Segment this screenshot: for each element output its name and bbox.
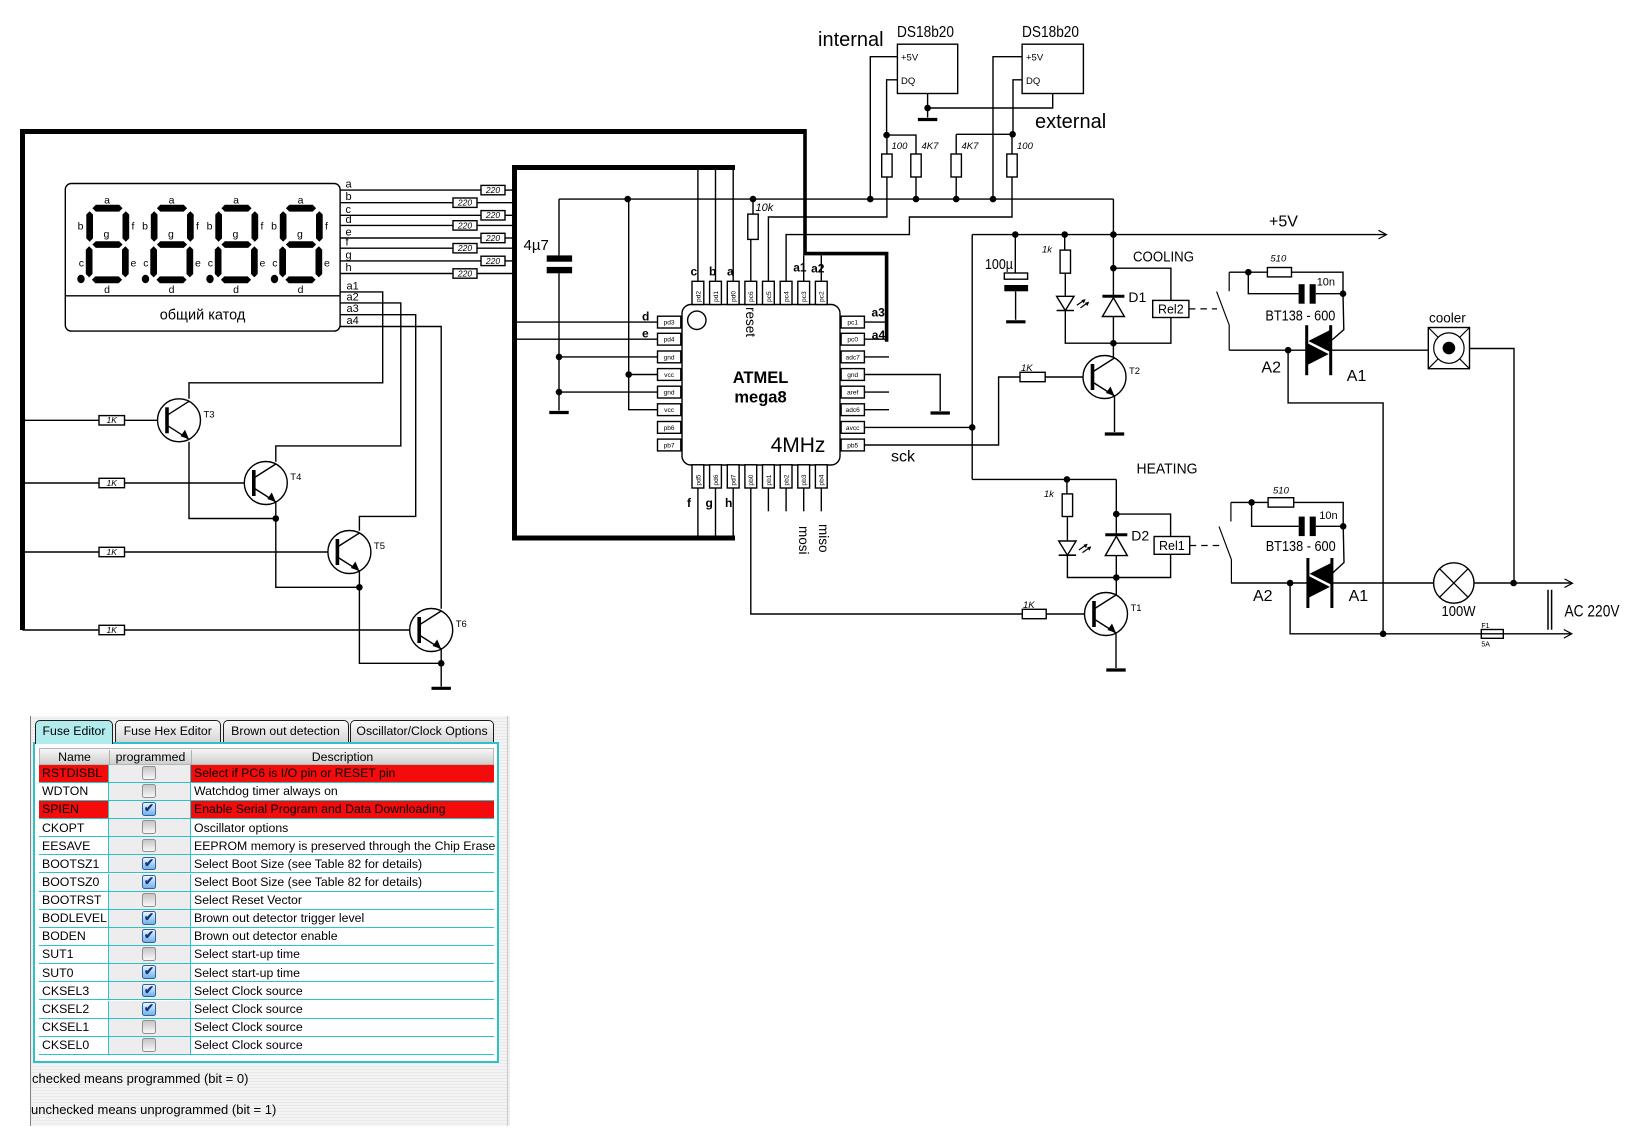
wire heating to D2	[1115, 479, 1117, 534]
pin pb0 bottom	[745, 465, 757, 488]
resistor 220 segment d	[453, 220, 477, 230]
svg-text:+5V: +5V	[1269, 214, 1298, 231]
pin avcc right	[841, 422, 864, 434]
wire T2 emitter	[1114, 396, 1116, 432]
wire a column to pd0	[732, 170, 734, 281]
caption checked means programmed	[32, 1071, 248, 1086]
wire pc3 to a-bus	[803, 255, 805, 281]
ground 100u	[1006, 320, 1025, 323]
wire segment d left	[340, 224, 453, 226]
wire segment f left	[340, 247, 453, 249]
wire lamp to AC live	[1474, 582, 1572, 584]
svg-text:100: 100	[1017, 141, 1034, 152]
fuse row BODEN	[39, 928, 494, 946]
svg-text:gnd: gnd	[664, 390, 675, 397]
svg-text:4K7: 4K7	[962, 141, 980, 152]
checkbox checked CKSEL3	[142, 984, 156, 998]
fuse row CKSEL3	[39, 982, 494, 1000]
svg-text:1k: 1k	[1042, 245, 1053, 256]
wire b column to pd1	[715, 170, 717, 281]
fuse row CKSEL0	[39, 1037, 494, 1055]
wire 4u7 to ground	[558, 273, 560, 410]
fuse row CKSEL1	[39, 1019, 494, 1037]
svg-text:pd5: pd5	[695, 474, 702, 485]
wire segment c to bus	[505, 214, 512, 216]
pin pd0 top	[727, 281, 739, 304]
resistor 220 segment h	[453, 268, 477, 278]
svg-text:510: 510	[1273, 486, 1290, 497]
wire gnd1 left	[559, 356, 658, 358]
junction avcc	[969, 424, 976, 431]
svg-text:pd3: pd3	[664, 320, 675, 327]
wire gnd right	[864, 375, 940, 412]
transistor T3	[158, 399, 215, 442]
svg-text:e: e	[642, 327, 649, 341]
resistor	[882, 154, 892, 177]
resistor	[748, 214, 758, 239]
svg-text:vcc: vcc	[664, 407, 675, 414]
svg-text:1K: 1K	[107, 625, 118, 635]
wire +5V to 4u7	[558, 199, 560, 255]
wire segment c left	[340, 214, 481, 216]
svg-text:gnd: gnd	[847, 372, 858, 379]
svg-text:pb6: pb6	[664, 425, 675, 432]
checkbox unchecked RSTDISBL	[142, 766, 156, 780]
svg-text:220: 220	[457, 268, 472, 278]
fuse row WDTON	[39, 783, 494, 801]
svg-text:A1: A1	[1347, 368, 1367, 385]
tab Fuse Hex Editor	[115, 720, 222, 742]
switch heating contact	[1219, 502, 1231, 583]
wire D2 to T1	[1115, 556, 1117, 596]
svg-text:220: 220	[485, 185, 500, 195]
pin adc6 right	[841, 404, 864, 416]
svg-text:pb5: pb5	[847, 442, 858, 449]
pin pc3 top	[798, 281, 810, 304]
pin pd1 top	[710, 281, 722, 304]
svg-text:A2: A2	[1261, 360, 1281, 377]
wire segment g to bus	[505, 260, 512, 262]
wire +5V to vcc	[628, 199, 630, 374]
svg-text:g: g	[706, 496, 713, 510]
wire a2 to T4 collector	[276, 303, 401, 462]
wire pc4 to external DQ	[786, 177, 1012, 281]
wire 100u bottom	[1015, 291, 1017, 320]
junction D1 bottom	[1110, 340, 1117, 347]
fuse row CKSEL2	[39, 1001, 494, 1019]
wire d to pd3	[517, 321, 658, 323]
fuse F1 5A	[1481, 623, 1503, 649]
pin pc6 top	[745, 281, 757, 304]
tab Brown out detection	[223, 720, 349, 742]
LED heating	[1059, 541, 1092, 555]
svg-text:h: h	[346, 262, 352, 274]
svg-text:pb7: pb7	[664, 442, 675, 449]
wire Rel1 dashed link	[1190, 545, 1220, 547]
wire +5V down to rail	[1112, 199, 1114, 235]
wire c column to pd2	[697, 170, 699, 281]
wire base T4 from bus	[23, 482, 100, 484]
wire Rel1 top	[1116, 514, 1170, 536]
svg-text:1K: 1K	[1021, 363, 1033, 374]
svg-text:pd4: pd4	[664, 337, 675, 344]
svg-text:miso: miso	[816, 524, 831, 553]
wire LED heating bottom	[1067, 555, 1116, 577]
wire segment-bus C-frame around MCU	[515, 168, 736, 539]
wire A2 cooling	[1229, 349, 1307, 351]
svg-text:D2: D2	[1131, 527, 1149, 543]
wire adc6 stub	[864, 409, 889, 411]
wire avcc to +5V	[864, 426, 972, 428]
svg-text:avcc: avcc	[846, 425, 860, 432]
ground T2	[1105, 432, 1124, 435]
svg-text:vcc: vcc	[664, 372, 675, 379]
svg-text:100µ: 100µ	[985, 256, 1013, 273]
wire external gnd	[928, 94, 1053, 109]
resistor 220 segment a	[481, 185, 505, 195]
checkbox checked BOOTSZ1	[142, 857, 156, 871]
svg-text:f: f	[687, 496, 692, 510]
wire +5V to avcc and heating	[971, 235, 973, 480]
wire Rel2 bottom	[1114, 318, 1171, 344]
svg-text:adc6: adc6	[846, 407, 861, 414]
checkbox unchecked CKSEL0	[142, 1038, 156, 1052]
transistor T5	[328, 531, 385, 574]
wire pb2 stub	[785, 488, 787, 511]
wire a4 to T6 collector	[340, 327, 441, 609]
wire base T5 from bus	[23, 551, 100, 553]
junction T4 emitter	[273, 515, 280, 522]
wire base T3	[125, 419, 168, 421]
sensor DS18b20 internal	[897, 24, 958, 94]
wire base T5	[125, 551, 338, 553]
checkbox checked SPIEN	[142, 802, 156, 816]
wire aref stub	[864, 391, 889, 393]
wire digit-select bus a1-a4	[805, 129, 887, 342]
svg-text:1K: 1K	[107, 415, 118, 425]
junction internal +5V	[867, 196, 874, 203]
resistor 220 segment c	[481, 210, 505, 220]
ground display drivers	[432, 687, 451, 690]
node AC live arrow	[1565, 579, 1573, 588]
svg-text:220: 220	[457, 220, 472, 230]
svg-text:DS18b20: DS18b20	[1022, 24, 1079, 41]
wire base T3 from bus	[23, 419, 100, 421]
svg-text:T6: T6	[456, 619, 467, 630]
svg-text:external: external	[1035, 111, 1106, 133]
wire pb0 to T1 base resistor	[751, 488, 1023, 614]
wire pb5 sck to T2 base	[864, 377, 1020, 445]
tab bar	[31, 720, 510, 742]
svg-text:DQ: DQ	[1026, 76, 1040, 87]
svg-text:1K: 1K	[1023, 600, 1035, 611]
resistor 220 segment f	[453, 243, 477, 253]
wire pc5 to internal DQ	[768, 177, 887, 281]
wire pc2 to a-bus	[820, 255, 822, 281]
wire cooler to AC	[1470, 349, 1515, 584]
checkbox checked CKSEL2	[142, 1002, 156, 1016]
svg-text:BT138 - 600: BT138 - 600	[1265, 308, 1335, 325]
fuse editor dialog	[30, 716, 510, 1126]
svg-text:общий катод: общий катод	[160, 308, 246, 324]
junction A2 heating	[1287, 580, 1294, 587]
wire 100 internal top	[886, 135, 888, 154]
svg-text:+5V: +5V	[1026, 53, 1044, 64]
wire T1 base	[1046, 613, 1094, 615]
wire 100 external top	[1011, 134, 1013, 154]
svg-text:4µ7: 4µ7	[524, 237, 549, 254]
wire base T6 from bus	[23, 629, 100, 631]
junction 1k cooling	[1061, 231, 1068, 238]
pin pb7 left	[658, 439, 681, 451]
fuse row RSTDISBL	[39, 765, 494, 783]
svg-text:h: h	[725, 496, 732, 510]
wire adc7 stub	[864, 356, 889, 358]
wire Rel2 dashed link	[1189, 308, 1217, 310]
svg-text:A1: A1	[1349, 588, 1369, 605]
relay Rel2	[1153, 300, 1189, 317]
svg-text:A2: A2	[1253, 588, 1273, 605]
wire 10n right heating	[1316, 525, 1343, 527]
wire h pd7 to bus	[732, 488, 734, 536]
svg-text:b: b	[346, 191, 352, 203]
triac BT138-600 heating	[1307, 558, 1332, 608]
pin pc4 top	[780, 281, 792, 304]
wire segment g left	[340, 260, 481, 262]
wire f pd5 to bus	[697, 488, 699, 536]
checkbox unchecked SUT1	[142, 947, 156, 961]
ground T1	[1106, 668, 1125, 671]
wire 1k to LED	[1064, 273, 1066, 296]
checkbox checked SUT0	[142, 965, 156, 979]
svg-text:a2: a2	[347, 291, 359, 303]
checkbox checked BODEN	[142, 929, 156, 943]
junction 510 cooling	[1245, 269, 1252, 276]
wire segment e left	[340, 237, 481, 239]
pin gnd left	[658, 351, 681, 363]
svg-text:220: 220	[457, 243, 472, 253]
svg-text:T1: T1	[1131, 603, 1142, 614]
junction gate cooling	[1340, 290, 1347, 297]
wire T1 emitter	[1115, 633, 1117, 668]
pin pd3 left	[658, 316, 681, 328]
junction vcc	[625, 371, 632, 378]
transistor T4	[244, 462, 301, 505]
wire base T4	[125, 482, 254, 484]
wire +5V distribution	[559, 198, 1113, 200]
junction internal DQ	[883, 132, 890, 139]
checkbox checked BODLEVEL	[142, 911, 156, 925]
wire 4K7 internal top	[887, 135, 916, 154]
svg-text:a1: a1	[793, 261, 807, 275]
junction sensor gnd	[924, 105, 931, 112]
svg-text:510: 510	[1270, 254, 1287, 265]
svg-text:Rel2: Rel2	[1158, 302, 1184, 316]
svg-text:pd0: pd0	[731, 291, 738, 302]
wire segment d to bus	[477, 224, 512, 226]
checkbox checked BOOTSZ0	[142, 875, 156, 889]
junction 4K7 internal	[913, 196, 920, 203]
pin vcc left	[658, 404, 681, 416]
resistor 220 segment b	[453, 198, 477, 208]
wire Rel1 bottom	[1116, 554, 1170, 577]
display digit 4	[271, 194, 330, 295]
svg-text:DS18b20: DS18b20	[897, 24, 954, 41]
junction 100u	[1012, 231, 1019, 238]
wire a1 to T3 collector	[189, 292, 383, 399]
wire internal gnd	[927, 94, 929, 109]
wire A2 heating	[1231, 582, 1308, 584]
wire internal DQ	[887, 80, 898, 135]
fuse row SPIEN	[39, 801, 494, 819]
svg-text:a3: a3	[872, 306, 886, 320]
svg-text:Rel1: Rel1	[1159, 539, 1185, 553]
fuse row CKOPT	[39, 819, 494, 837]
svg-text:a2: a2	[811, 262, 825, 276]
pin pb1 bottom	[763, 465, 775, 488]
transistor T2	[1083, 356, 1140, 399]
wire vcc1 left	[629, 374, 658, 376]
wire rail to D1	[1112, 235, 1114, 297]
resistor	[1060, 250, 1070, 273]
wire switch to 510 heating	[1231, 501, 1268, 503]
wire heating supply	[972, 478, 1116, 480]
wire segment b left	[340, 202, 453, 204]
resistor 1K base T6	[99, 625, 125, 635]
wire T3 emitter to T4 emitter	[189, 442, 276, 519]
wire D1 to T2	[1112, 317, 1114, 361]
wire external +5V	[993, 57, 1022, 199]
MCU pin1 mark	[688, 311, 706, 329]
svg-text:4MHz: 4MHz	[771, 434, 826, 457]
junction external DQ	[1009, 131, 1016, 138]
wire 4K7 external top	[956, 133, 1012, 135]
LED cooling	[1057, 296, 1090, 310]
svg-text:220: 220	[457, 198, 472, 208]
svg-text:T5: T5	[374, 541, 385, 552]
ground MCU right	[931, 411, 950, 414]
capacitor 4u7	[524, 237, 573, 273]
junction AC neutral	[1380, 631, 1387, 638]
svg-text:pd2: pd2	[695, 291, 702, 302]
IC U1 ATMEL mega8	[682, 305, 840, 466]
wire LED cooling bottom	[1065, 311, 1113, 344]
diode D2	[1105, 527, 1149, 555]
svg-text:adc7: adc7	[846, 354, 861, 361]
svg-text:100W: 100W	[1442, 603, 1477, 620]
ground sensors	[918, 118, 937, 121]
wire T4 emitter chain	[276, 502, 360, 587]
wire gate cooling	[1332, 294, 1344, 340]
caption unchecked means unprogrammed	[31, 1102, 276, 1117]
svg-text:g: g	[346, 249, 352, 261]
dialog right edge	[507, 716, 508, 1126]
svg-text:cooler: cooler	[1429, 311, 1466, 326]
svg-text:pb2: pb2	[784, 474, 791, 485]
wire vcc2 left	[629, 375, 658, 410]
wire 4K7 internal bottom	[915, 177, 917, 199]
display separator line	[65, 295, 340, 297]
pin pc0 right	[841, 333, 864, 345]
svg-text:a4: a4	[347, 315, 359, 327]
wire 10k top	[752, 199, 754, 214]
pin vcc left	[658, 369, 681, 381]
capacitor 100u	[985, 256, 1028, 291]
svg-text:1k: 1k	[1044, 489, 1055, 500]
wire pc1 a3 to bus	[864, 321, 886, 323]
pin pb6 left	[658, 422, 681, 434]
wire A1 to cooler	[1331, 349, 1429, 351]
fuse row BOOTRST	[39, 892, 494, 910]
resistor 1K base T1	[1022, 609, 1046, 618]
resistor	[951, 154, 961, 177]
svg-text:D1: D1	[1128, 289, 1146, 305]
svg-text:pb4: pb4	[819, 474, 826, 485]
wire +5V rail	[972, 234, 1386, 236]
svg-text:5A: 5A	[1481, 642, 1490, 649]
wire pb1 stub	[767, 488, 769, 511]
svg-text:aref: aref	[847, 390, 859, 397]
svg-text:a: a	[346, 179, 353, 191]
svg-text:pc0: pc0	[847, 337, 858, 344]
svg-text:DQ: DQ	[901, 76, 915, 87]
svg-text:HEATING: HEATING	[1137, 461, 1198, 478]
svg-text:pb1: pb1	[766, 474, 773, 485]
junction gnd2	[556, 389, 563, 396]
junction gate heating	[1340, 523, 1347, 530]
svg-text:F1: F1	[1481, 623, 1489, 630]
motor cooler	[1428, 311, 1469, 369]
connector AC 220V	[1548, 590, 1620, 630]
resistor	[1062, 494, 1072, 517]
svg-text:pd7: pd7	[731, 474, 738, 485]
svg-text:pc2: pc2	[819, 291, 826, 302]
wire 510 to gate heating	[1294, 502, 1344, 526]
display digit 3	[206, 194, 265, 295]
svg-text:c: c	[691, 265, 698, 279]
wire AC neutral	[1290, 583, 1571, 634]
fuse row BODLEVEL	[39, 910, 494, 928]
svg-text:T2: T2	[1129, 366, 1140, 377]
svg-text:1K: 1K	[107, 547, 118, 557]
pin gnd right	[841, 369, 864, 381]
wire 1k cooling top	[1064, 235, 1066, 251]
capacitor 10n cooling	[1299, 277, 1335, 304]
fuse table header	[39, 748, 494, 765]
wire pb4 stub	[820, 488, 822, 511]
wire gate heating	[1333, 526, 1344, 573]
resistor	[1007, 154, 1017, 177]
wire g pd6 to bus	[715, 488, 717, 536]
node AC neutral arrow	[1564, 630, 1572, 639]
svg-text:4K7: 4K7	[922, 141, 940, 152]
checkbox unchecked WDTON	[142, 784, 156, 798]
capacitor 10n heating	[1299, 510, 1338, 536]
svg-text:COOLING: COOLING	[1133, 249, 1194, 266]
wire base T6	[125, 629, 420, 631]
svg-text:d: d	[346, 214, 352, 226]
resistor 510 heating	[1268, 498, 1294, 507]
diode D1	[1102, 289, 1146, 317]
svg-text:+5V: +5V	[901, 53, 919, 64]
svg-text:pb3: pb3	[801, 474, 808, 485]
svg-text:10k: 10k	[756, 202, 774, 214]
fuse row SUT0	[39, 964, 494, 982]
pin pd5 bottom	[692, 465, 704, 488]
svg-text:220: 220	[485, 210, 500, 220]
pin pb5 right	[841, 439, 864, 451]
wire 4K7 external drop	[955, 134, 957, 154]
